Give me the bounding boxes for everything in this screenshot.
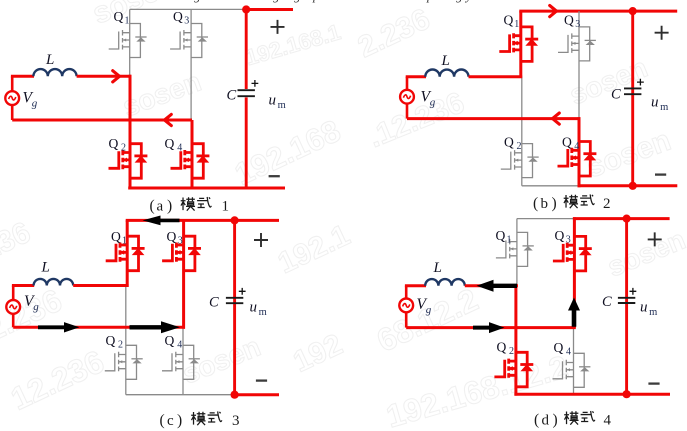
transistor Q3 (a) off	[170, 24, 208, 58]
wire: left leg upper gray through Q1 (a)	[129, 9, 131, 76]
transistor Q1 (d) off	[496, 232, 534, 266]
arrow: current right on inductor wire (a)	[113, 71, 120, 82]
svg-text:192.168.1: 192.168.1	[242, 19, 343, 70]
svg-text:Q: Q	[106, 333, 116, 348]
wire: inductor to bridge node (b)	[469, 75, 523, 78]
wire: inductor to bridge node (a)	[77, 75, 132, 78]
capacitor C (b)	[624, 88, 641, 94]
node: top junction dot (a)	[242, 5, 250, 13]
svg-text:Q: Q	[504, 13, 514, 28]
wire: Vg left vertical (d)	[405, 286, 408, 299]
svg-text:(: (	[150, 198, 155, 215]
source Vg (b)	[400, 90, 414, 104]
capacitor C (a)	[238, 90, 255, 96]
svg-text:4: 4	[566, 347, 571, 358]
svg-text:Q: Q	[497, 340, 507, 355]
subfigure (c) mode 3 circuit	[6, 216, 279, 430]
svg-text:g: g	[426, 304, 432, 316]
inductor L (a)	[33, 69, 76, 76]
arrow: current left on mid wire (a)	[165, 114, 172, 125]
svg-text:2: 2	[121, 143, 126, 154]
svg-text:Q: Q	[165, 333, 175, 348]
wire: right leg upper red through Q3 (c)	[182, 220, 185, 328]
svg-text:4: 4	[604, 413, 612, 429]
svg-text:2: 2	[118, 340, 123, 351]
svg-text:L: L	[41, 260, 50, 276]
wire: top rail red right segment (a)	[244, 8, 293, 11]
wire: output branch vertical red (b)	[631, 11, 634, 186]
wire: mid wire red (c)	[13, 326, 185, 329]
wire: right leg upper gray through Q3 (b)	[578, 11, 580, 119]
transistor Q3 (d) on	[553, 236, 592, 271]
arrow: black current arrow right near bridge (c)	[130, 321, 181, 333]
node: top junction dot (d)	[623, 215, 631, 223]
svg-text:68.12.2: 68.12.2	[371, 281, 483, 359]
svg-text:): )	[167, 198, 172, 215]
terminal + (a)	[271, 20, 285, 34]
arrow: current left on mid wire (b)	[553, 113, 560, 124]
wire: bottom rail red (a)	[128, 187, 285, 190]
wire: bottom rail red (d)	[514, 393, 670, 396]
svg-text:Q: Q	[165, 136, 175, 151]
svg-text:C: C	[611, 87, 621, 103]
source Vg (c)	[6, 300, 20, 314]
wire: Vg left vertical (b)	[406, 77, 409, 90]
svg-text:C: C	[602, 294, 612, 310]
svg-text:p: p	[312, 0, 320, 3]
svg-text:192: 192	[288, 328, 347, 379]
svg-text:1: 1	[122, 236, 127, 247]
svg-text:Q: Q	[554, 340, 564, 355]
capacitor polarity + (d)	[630, 288, 637, 295]
svg-text:): )	[177, 412, 182, 429]
svg-text:g: g	[294, 0, 301, 3]
svg-text:c: c	[167, 413, 174, 429]
svg-text:d: d	[542, 413, 550, 429]
wire: left leg upper gray through Q1 (d)	[516, 219, 518, 286]
cut-off text fragments at top edge	[194, 0, 472, 3]
wire: Vg left vertical (c)	[12, 286, 15, 301]
svg-text:sosen: sosen	[88, 0, 181, 31]
svg-text:sosen: sosen	[178, 331, 265, 390]
wire: top rail red (b)	[519, 10, 677, 13]
wire: mid return wire red (a)	[12, 119, 192, 122]
arrow: black current arrow right near Vg (c)	[38, 322, 80, 332]
svg-text:Q: Q	[555, 228, 565, 243]
wire: right leg upper red through Q3 (d)	[573, 217, 576, 327]
svg-text:g: g	[194, 0, 201, 3]
wire: right leg lower gray through Q4 (d)	[573, 328, 575, 395]
svg-text:g: g	[33, 301, 39, 313]
svg-text:3: 3	[178, 236, 183, 247]
svg-text:(: (	[160, 412, 165, 429]
node: top junction dot (c)	[231, 216, 239, 224]
terminal - (c)	[256, 379, 267, 381]
svg-text:g: g	[273, 0, 280, 3]
svg-text:.12.236: .12.236	[364, 86, 469, 154]
svg-text:Q: Q	[109, 136, 119, 151]
transistor Q4 (b) on	[558, 142, 597, 177]
arrow: black current arrow left on inductor wire (d)	[477, 280, 518, 292]
terminal - (d)	[648, 382, 659, 384]
arrow: current right on top rail (b)	[550, 6, 557, 17]
svg-text:Q: Q	[167, 229, 177, 244]
svg-text:4: 4	[177, 340, 182, 351]
svg-text:L: L	[433, 260, 442, 276]
svg-text:m: m	[278, 100, 286, 111]
subfigure (a) mode 1 circuit	[5, 5, 293, 214]
wire: right leg upper gray through Q3 (a)	[190, 9, 192, 120]
svg-text:C: C	[209, 295, 219, 311]
transistor Q1 (c) on	[106, 236, 145, 271]
subfigure (d) mode 4 circuit	[399, 215, 670, 429]
svg-text:m: m	[259, 307, 267, 318]
svg-text:236: 236	[0, 216, 36, 267]
source Vg (a)	[5, 91, 19, 105]
terminal - (a)	[269, 175, 280, 177]
wire: top horizontal to inductor (a)	[11, 75, 34, 78]
node: bottom junction dot (b)	[629, 182, 637, 190]
node: top junction dot (b)	[629, 7, 637, 15]
svg-text:12.236: 12.236	[5, 343, 109, 417]
wire: top rail red right part (d)	[573, 217, 670, 220]
svg-text:): )	[552, 195, 557, 212]
wire: left leg lower gray through Q2 (b)	[521, 77, 523, 186]
transistor Q4 (a) on	[171, 144, 210, 179]
wire: bottom rail gray left part (b)	[522, 185, 579, 187]
svg-text:m: m	[660, 102, 668, 113]
wire: inductor to bridge node (c)	[73, 284, 128, 287]
svg-text:1: 1	[507, 235, 512, 246]
svg-text:4: 4	[574, 141, 579, 152]
transistor Q1 (a) off	[109, 24, 147, 58]
transistor Q4 (c) off	[162, 345, 200, 379]
svg-text:sosen: sosen	[603, 224, 687, 283]
wire: top rail gray (a)	[130, 8, 246, 10]
svg-text:a: a	[157, 199, 164, 215]
svg-text:u: u	[250, 300, 258, 316]
inductor L (b)	[425, 70, 468, 77]
svg-text:Q: Q	[504, 135, 514, 150]
svg-text:1: 1	[125, 16, 130, 27]
svg-text:2: 2	[517, 141, 522, 152]
wire: bottom rail gray left part (c)	[126, 394, 235, 396]
wire: mid wire red (d)	[406, 326, 576, 329]
wire: inductor to bridge node (d)	[465, 284, 518, 287]
svg-text:1: 1	[514, 19, 519, 30]
svg-text:4: 4	[177, 143, 182, 154]
wire: right leg lower red through Q4 (a)	[191, 120, 194, 190]
svg-text:3: 3	[575, 19, 580, 30]
wire: output branch vertical red (c)	[233, 220, 236, 394]
transistor Q3 (c) on	[162, 236, 201, 271]
inductor L (d)	[425, 279, 465, 286]
svg-text:u: u	[269, 93, 277, 109]
svg-text:b: b	[541, 196, 549, 212]
wire: left leg upper red through Q1 (b)	[519, 11, 522, 78]
wire: output branch vertical red (d)	[625, 219, 628, 395]
terminal - (b)	[655, 173, 666, 175]
svg-text:3: 3	[184, 16, 189, 27]
capacitor polarity + (b)	[637, 79, 644, 86]
transistor Q2 (a) on	[109, 144, 148, 179]
capacitor C (d)	[618, 298, 635, 303]
wire: top rail red (c)	[126, 219, 279, 222]
svg-text:1: 1	[222, 199, 230, 215]
wire: bottom rail red right part (c)	[233, 393, 279, 396]
wire: left leg lower gray through Q2 (c)	[125, 286, 127, 395]
wire: output branch vertical red (a)	[245, 10, 248, 90]
svg-text:2.236: 2.236	[0, 282, 67, 348]
svg-text:Q: Q	[111, 229, 121, 244]
wire: Vg left vertical (a)	[11, 76, 14, 91]
wire: right leg lower red through Q4 (b)	[578, 117, 581, 187]
svg-text:L: L	[45, 52, 54, 68]
transistor Q2 (d) on	[494, 352, 533, 387]
wire: left leg lower red (a)	[129, 75, 132, 190]
svg-text:2.236: 2.236	[353, 3, 435, 65]
svg-text:p: p	[426, 0, 434, 3]
wire: mid return wire red (b)	[407, 117, 580, 120]
capacitor polarity + (c)	[239, 288, 246, 295]
svg-text:Q: Q	[114, 9, 124, 24]
terminal + (b)	[655, 26, 669, 40]
svg-text:Q: Q	[173, 9, 183, 24]
node: bottom junction dot (d)	[623, 390, 631, 398]
svg-text:Q: Q	[562, 135, 572, 150]
svg-text:Q: Q	[496, 228, 506, 243]
wire: bottom rail red right part (b)	[578, 184, 678, 187]
arrow: black current arrow right on mid wire (d)	[473, 322, 505, 333]
svg-text:(: (	[533, 195, 538, 212]
svg-text:2: 2	[509, 346, 514, 357]
wire: top horizontal to inductor (c)	[12, 284, 34, 287]
wire: left leg upper red through Q1 (c)	[126, 220, 129, 287]
svg-text:C: C	[227, 88, 237, 104]
arrow: black current arrow up on right leg (d)	[568, 298, 580, 327]
transistor Q1 (b) on	[499, 27, 538, 62]
svg-text:3: 3	[566, 235, 571, 246]
svg-text:m: m	[649, 307, 657, 318]
svg-text:g: g	[456, 0, 463, 3]
svg-text:y: y	[464, 0, 472, 3]
svg-text:sosen: sosen	[565, 52, 652, 111]
wire: top rail gray left part (d)	[517, 218, 575, 220]
source Vg (d)	[399, 299, 413, 313]
svg-text:192.1: 192.1	[273, 219, 355, 281]
subfigure (b) mode 2 circuit	[400, 6, 677, 213]
terminal + (d)	[648, 232, 662, 246]
svg-text:g: g	[430, 97, 436, 109]
arrow: black current arrow left on top rail (c)	[143, 216, 180, 226]
transistor Q3 (b) off	[558, 27, 596, 61]
node: bottom junction dot (c)	[231, 391, 239, 399]
wire: top horizontal to inductor (b)	[406, 75, 426, 78]
svg-text:L: L	[441, 53, 450, 69]
transistor Q4 (d) off	[553, 353, 591, 387]
svg-text:g: g	[32, 98, 38, 110]
capacitor C (c)	[226, 298, 243, 303]
svg-text:2: 2	[603, 196, 611, 212]
svg-text:u: u	[640, 300, 648, 316]
svg-text:): )	[553, 412, 558, 429]
wire: right leg lower gray through Q4 (c)	[182, 327, 184, 394]
capacitor polarity + (a)	[252, 80, 259, 87]
wire: top horizontal to inductor (d)	[405, 284, 426, 287]
terminal + (c)	[254, 233, 268, 247]
svg-text:(: (	[534, 412, 539, 429]
svg-text:Q: Q	[564, 13, 574, 28]
wire: left leg lower red through Q2 (d)	[514, 284, 517, 395]
svg-text:3: 3	[232, 413, 240, 429]
inductor L (c)	[34, 279, 74, 286]
transistor Q2 (b) off	[501, 144, 539, 178]
svg-text:u: u	[651, 95, 659, 111]
transistor Q2 (c) off	[105, 345, 143, 379]
